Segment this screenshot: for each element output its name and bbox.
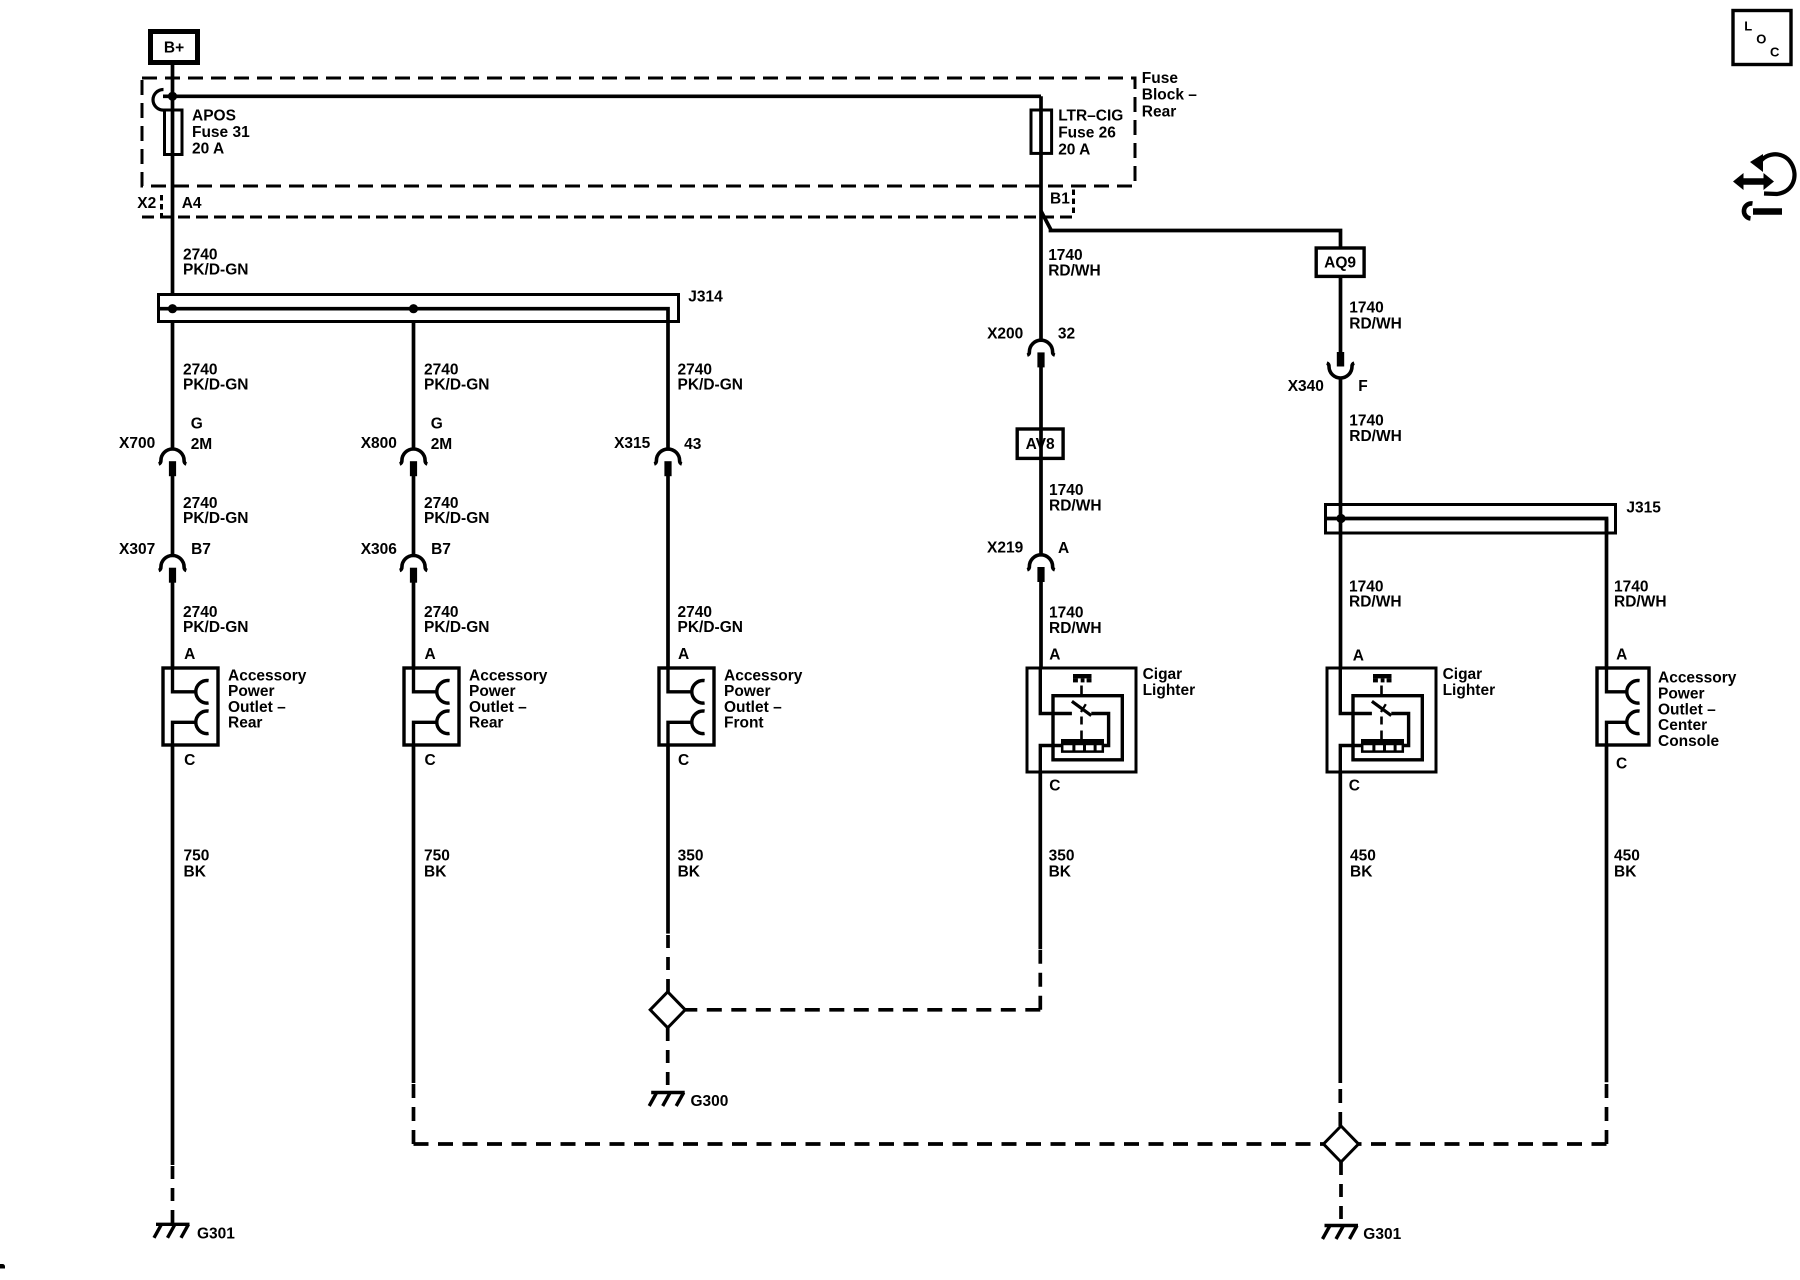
svg-text:X2: X2: [137, 195, 156, 212]
label: Fuse Block - Rear: [1142, 70, 1198, 121]
label: 2740 PK/D-GN (X700-X307): [183, 495, 248, 527]
wire: outlet 1 to G301 (left): [171, 745, 175, 1165]
svg-text:450: 450: [1350, 848, 1376, 865]
svg-text:Lighter: Lighter: [1443, 682, 1496, 699]
label X2: [137, 195, 156, 212]
svg-text:C: C: [678, 752, 689, 769]
wire: J315 to cigar lighter 2: [1339, 519, 1343, 669]
pin tick X2/A4: [160, 195, 163, 216]
svg-text:PK/D-GN: PK/D-GN: [678, 619, 743, 636]
label pin A (lighter 1): [1049, 647, 1060, 664]
svg-text:Fuse 31: Fuse 31: [192, 124, 250, 141]
svg-text:Accessory: Accessory: [228, 668, 307, 685]
svg-text:AQ9: AQ9: [1324, 255, 1356, 272]
splice diamond (G301 splice): [1324, 1126, 1359, 1162]
wire: outlet front to splice diamond 1: [666, 745, 670, 934]
wire: lighter 2 to splice diamond 2: [1338, 772, 1342, 1083]
label: 1740 RD/WH (below AV8): [1049, 482, 1102, 515]
fuse block - rear dashed outline: [142, 78, 1135, 186]
svg-text:APOS: APOS: [192, 108, 236, 125]
label: Accessory Power Outlet - Front: [724, 668, 803, 732]
svg-text:Rear: Rear: [1142, 104, 1176, 121]
svg-text:750: 750: [424, 848, 450, 865]
svg-text:Fuse: Fuse: [1142, 70, 1179, 87]
battery feed B+: [151, 32, 198, 63]
wire: outlet console to splice diamond 2: [1605, 745, 1609, 1082]
svg-text:C: C: [1616, 756, 1627, 773]
svg-text:Lighter: Lighter: [1143, 682, 1196, 699]
svg-text:PK/D-GN: PK/D-GN: [424, 510, 489, 527]
svg-text:PK/D-GN: PK/D-GN: [424, 377, 489, 394]
label pin C (outlet 2): [425, 752, 436, 769]
label pin C (lighter 2): [1349, 778, 1360, 795]
label: 450 BK (wire 6): [1614, 848, 1640, 881]
svg-text:RD/WH: RD/WH: [1049, 620, 1102, 637]
label G300: [691, 1093, 729, 1110]
svg-text:Power: Power: [724, 683, 771, 700]
svg-text:B1: B1: [1050, 191, 1070, 208]
label: 2740 PK/D-GN (below fuse 31): [183, 247, 248, 279]
svg-text:BK: BK: [184, 864, 207, 881]
cigar lighter 2: [1327, 668, 1436, 772]
svg-text:Cigar: Cigar: [1443, 666, 1483, 683]
label: 2740 PK/D-GN (wire 3): [678, 362, 743, 394]
svg-text:450: 450: [1614, 848, 1640, 865]
svg-text:G: G: [191, 416, 203, 433]
svg-text:C: C: [184, 752, 195, 769]
label pin A (lighter 2): [1353, 648, 1364, 665]
label B1: [1050, 191, 1070, 208]
wire: X219 to cigar lighter 1: [1039, 582, 1043, 668]
svg-text:C: C: [1770, 45, 1780, 60]
svg-text:B7: B7: [431, 541, 451, 558]
svg-text:A: A: [678, 646, 689, 663]
svg-text:Power: Power: [469, 683, 516, 700]
svg-text:Center: Center: [1658, 717, 1707, 734]
svg-text:X200: X200: [987, 326, 1023, 343]
label pin B7 (X306): [431, 541, 451, 558]
svg-text:Rear: Rear: [228, 715, 262, 732]
svg-text:1740: 1740: [1349, 413, 1383, 430]
label: 1740 RD/WH (above lighter 2): [1349, 579, 1402, 611]
wire: J314 to X315: [666, 320, 670, 449]
label X219: [987, 540, 1024, 557]
svg-text:32: 32: [1058, 326, 1075, 343]
ground G301 left: [154, 1224, 190, 1238]
wire: X700 to X307: [171, 476, 175, 556]
svg-text:O: O: [1756, 32, 1766, 47]
label J314: [688, 289, 723, 306]
svg-text:PK/D-GN: PK/D-GN: [183, 377, 248, 394]
svg-text:350: 350: [678, 848, 704, 865]
label: 2740 PK/D-GN (wire 2): [424, 362, 489, 394]
label X340: [1288, 378, 1324, 395]
label pin C (outlet 1): [184, 752, 195, 769]
pin tick B1: [1072, 190, 1075, 216]
label X307: [119, 541, 155, 558]
label pin A (X219): [1058, 540, 1069, 557]
connector X307 pin B7: [159, 556, 187, 583]
label: Accessory Power Outlet - Center Console: [1658, 670, 1737, 750]
svg-text:X800: X800: [361, 435, 397, 452]
svg-text:20 A: 20 A: [192, 140, 224, 157]
svg-text:G301: G301: [197, 1226, 235, 1243]
label: Accessory Power Outlet - Rear (1): [228, 668, 307, 732]
svg-text:J315: J315: [1626, 500, 1661, 517]
svg-text:X306: X306: [361, 541, 398, 558]
fuse LTR-CIG Fuse 26 20A: [1031, 110, 1052, 153]
svg-text:Cigar: Cigar: [1143, 666, 1183, 683]
svg-text:F: F: [1358, 378, 1367, 395]
label pin B7 (X307): [191, 541, 211, 558]
ground G301 right: [1323, 1226, 1359, 1240]
label: 2740 PK/D-GN (above outlet 2): [424, 604, 489, 636]
label pin C (outlet front): [678, 752, 689, 769]
wire: X340 down to J315: [1339, 378, 1343, 519]
connector X2 dashed boundary line: [142, 216, 1074, 219]
svg-text:RD/WH: RD/WH: [1349, 594, 1402, 611]
svg-text:Power: Power: [1658, 686, 1705, 703]
svg-text:C: C: [1049, 778, 1060, 795]
accessory power outlet - rear 2: [404, 668, 459, 745]
wire: fuse 26 down to X200: [1039, 96, 1043, 340]
svg-text:C: C: [425, 752, 436, 769]
svg-text:2M: 2M: [191, 436, 213, 453]
label: Accessory Power Outlet - Rear (2): [469, 668, 548, 732]
svg-text:A: A: [1049, 647, 1060, 664]
splice pack J315: [1326, 505, 1616, 534]
svg-text:PK/D-GN: PK/D-GN: [183, 619, 248, 636]
label: APOS Fuse 31 20 A: [192, 108, 250, 158]
label pin A (outlet 2): [425, 646, 436, 663]
svg-text:Rear: Rear: [469, 715, 503, 732]
wire branch to AQ9: [1041, 211, 1341, 248]
accessory power outlet - rear 1: [163, 668, 218, 745]
label X200: [987, 326, 1023, 343]
label: 350 BK (wire 3): [678, 848, 704, 881]
wire: J314 to X700: [171, 320, 175, 449]
wire: X800 to X306: [412, 476, 416, 556]
label: Cigar Lighter (1): [1143, 666, 1196, 699]
label pin 43: [684, 436, 702, 453]
label: 750 BK (wire 2): [424, 848, 450, 881]
splice diamond (G300 splice): [650, 992, 685, 1028]
alias box AQ9: [1316, 248, 1364, 276]
label: 450 BK (wire 5): [1350, 848, 1376, 881]
navigation arrows icon: [1733, 154, 1795, 219]
wire: lighter 1 to splice diamond 1: [1038, 772, 1042, 949]
svg-text:1740: 1740: [1049, 482, 1083, 499]
label: 1740 RD/WH (above outlet console): [1614, 579, 1667, 611]
label X700: [119, 435, 155, 452]
label: 350 BK (wire 4): [1049, 848, 1075, 881]
svg-text:PK/D-GN: PK/D-GN: [183, 510, 248, 527]
LOC reference icon: [1733, 11, 1791, 65]
svg-text:X340: X340: [1288, 378, 1324, 395]
svg-text:BK: BK: [424, 864, 447, 881]
svg-text:G: G: [431, 416, 443, 433]
label: Cigar Lighter (2): [1443, 666, 1496, 699]
label: circuit 1740 RD/WH (below B1): [1048, 247, 1101, 280]
label pin A (outlet front): [678, 646, 689, 663]
label pin A (outlet console): [1616, 647, 1627, 664]
connector X700 pins G/2M: [159, 449, 187, 476]
svg-text:A4: A4: [182, 195, 202, 212]
svg-text:Accessory: Accessory: [469, 668, 548, 685]
junction: B+ wire to bus: [168, 92, 177, 101]
svg-text:Outlet –: Outlet –: [228, 699, 286, 716]
svg-text:X315: X315: [614, 435, 651, 452]
svg-text:BK: BK: [1049, 864, 1072, 881]
wire: X307 to outlet rear 1: [171, 583, 175, 669]
wire: X315 to outlet front: [666, 476, 670, 668]
svg-text:B7: B7: [191, 541, 211, 558]
cigar lighter 1: [1027, 668, 1136, 772]
svg-text:A: A: [1353, 648, 1364, 665]
wire: X306 to outlet rear 2: [412, 583, 416, 669]
connector X315 pin 43: [654, 449, 682, 476]
svg-text:RD/WH: RD/WH: [1049, 498, 1102, 515]
wire: X200 to X219 through AV8: [1039, 367, 1043, 555]
splice pack J314: [159, 295, 679, 322]
svg-text:Accessory: Accessory: [1658, 670, 1737, 687]
svg-text:Power: Power: [228, 683, 275, 700]
svg-text:Console: Console: [1658, 733, 1720, 750]
label X315: [614, 435, 651, 452]
svg-text:G300: G300: [691, 1093, 729, 1110]
wire: B+ down through fuse APOS to J314: [171, 62, 175, 295]
svg-text:Fuse 26: Fuse 26: [1058, 125, 1116, 142]
svg-text:X307: X307: [119, 541, 155, 558]
svg-text:1740: 1740: [1049, 605, 1083, 622]
wire: AQ9 down to X340: [1339, 276, 1343, 352]
label pin F: [1358, 378, 1367, 395]
svg-text:Outlet –: Outlet –: [724, 699, 782, 716]
label J315: [1626, 500, 1661, 517]
label pin G (X700): [191, 416, 203, 433]
label: 2740 PK/D-GN (above outlet front): [678, 604, 743, 636]
label pin 32: [1058, 326, 1075, 343]
connector X200 pin 32: [1027, 340, 1055, 367]
svg-text:PK/D-GN: PK/D-GN: [424, 619, 489, 636]
svg-text:350: 350: [1049, 848, 1075, 865]
wire: J314 to X800: [412, 320, 416, 449]
svg-text:AV8: AV8: [1026, 436, 1055, 453]
svg-text:G301: G301: [1363, 1226, 1401, 1243]
connector X219 pin A: [1027, 555, 1055, 582]
wire: splice to G301 right: [1339, 1162, 1343, 1224]
label pin A (outlet 1): [184, 646, 195, 663]
svg-text:BK: BK: [1350, 864, 1373, 881]
label pin C (outlet console): [1616, 756, 1627, 773]
svg-text:43: 43: [684, 436, 702, 453]
svg-text:RD/WH: RD/WH: [1349, 428, 1402, 445]
accessory power outlet - center console: [1597, 668, 1649, 745]
label: 1740 RD/WH (above J315): [1349, 413, 1402, 446]
svg-text:Outlet –: Outlet –: [1658, 701, 1716, 718]
fuse APOS Fuse 31 20A: [165, 110, 183, 155]
svg-text:X219: X219: [987, 540, 1024, 557]
svg-text:A: A: [1058, 540, 1069, 557]
bus hook at left end: [153, 90, 163, 111]
label: 2740 PK/D-GN (X800-X306): [424, 495, 489, 527]
svg-text:L: L: [1744, 18, 1752, 33]
label pin C (lighter 1): [1049, 778, 1060, 795]
svg-text:BK: BK: [1614, 864, 1637, 881]
svg-text:A: A: [184, 646, 195, 663]
label: 2740 PK/D-GN (wire 1): [183, 362, 248, 394]
svg-text:Accessory: Accessory: [724, 668, 803, 685]
label X306: [361, 541, 398, 558]
connector X340 pin F: [1327, 352, 1354, 378]
accessory power outlet - front: [659, 668, 714, 745]
label pin G (X800): [431, 416, 443, 433]
svg-text:A: A: [425, 646, 436, 663]
label: 750 BK (wire 1): [184, 848, 210, 881]
svg-text:RD/WH: RD/WH: [1349, 316, 1402, 333]
connector X306 pin B7: [400, 556, 428, 583]
svg-text:Outlet –: Outlet –: [469, 699, 527, 716]
svg-text:A: A: [1616, 647, 1627, 664]
svg-text:PK/D-GN: PK/D-GN: [183, 262, 248, 279]
svg-text:750: 750: [184, 848, 210, 865]
svg-text:20 A: 20 A: [1058, 142, 1090, 159]
svg-text:B+: B+: [164, 40, 184, 57]
label: 2740 PK/D-GN (above outlet 1): [183, 604, 248, 636]
label A4: [182, 195, 202, 212]
svg-text:Front: Front: [724, 715, 764, 732]
wire: outlet 2 to splice (dashed corner): [412, 745, 416, 1083]
label G301 (right): [1363, 1226, 1401, 1243]
svg-text:1740: 1740: [1349, 300, 1383, 317]
svg-text:1740: 1740: [1048, 247, 1082, 264]
ground G300: [649, 1093, 685, 1107]
svg-text:PK/D-GN: PK/D-GN: [678, 377, 743, 394]
svg-text:BK: BK: [678, 864, 701, 881]
label X800: [361, 435, 397, 452]
label pin 2M (X700): [191, 436, 213, 453]
label: 1740 RD/WH (below AQ9): [1349, 300, 1402, 333]
svg-text:2M: 2M: [431, 436, 453, 453]
edge mark: [0, 1264, 5, 1269]
label: 1740 RD/WH (above lighter 1): [1049, 605, 1102, 638]
svg-text:RD/WH: RD/WH: [1048, 263, 1101, 280]
label pin 2M (X800): [431, 436, 453, 453]
fuse block internal bus wire: [163, 94, 1041, 98]
svg-text:X700: X700: [119, 435, 155, 452]
wire: J315 to outlet center console: [1605, 519, 1609, 669]
wire: splice to G300: [666, 1028, 670, 1091]
label: LTR-CIG Fuse 26 20 A: [1058, 108, 1123, 159]
svg-text:LTR–CIG: LTR–CIG: [1058, 108, 1123, 125]
alias box AV8: [1017, 429, 1063, 458]
svg-text:Block –: Block –: [1142, 87, 1198, 104]
svg-text:J314: J314: [688, 289, 723, 306]
label G301 (left): [197, 1226, 235, 1243]
svg-text:C: C: [1349, 778, 1360, 795]
svg-text:RD/WH: RD/WH: [1614, 594, 1667, 611]
connector X800 pins G/2M: [400, 449, 428, 476]
